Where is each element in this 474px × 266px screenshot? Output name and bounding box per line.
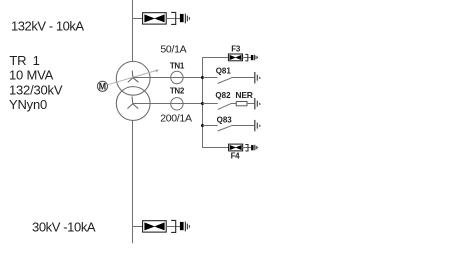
ground LV arrester bar2: [186, 224, 188, 230]
wire: junction to Q81 blade: [203, 77, 218, 79]
black electrode block F3: [251, 55, 254, 60]
ground F4 bar2: [255, 146, 257, 149]
surge arrester LV box: [143, 221, 167, 232]
bracket F4: [245, 145, 248, 152]
ground F4 bar3: [257, 147, 259, 149]
wire: to arrester F3: [203, 57, 229, 59]
svg-text:TN1: TN1: [170, 62, 185, 71]
node junction TN1/Q81: [201, 76, 204, 79]
svg-text:1: 1: [33, 53, 40, 68]
HV winding wye symbol: [128, 71, 139, 83]
ground Q82 bar1: [254, 98, 256, 109]
wire: HV neutral to junction (row Q81): [133, 77, 203, 79]
wire: junction to Q83 blade: [203, 125, 218, 127]
svg-text:TN2: TN2: [170, 86, 185, 95]
CT TN2 circle: [171, 98, 183, 110]
surge arrester HV right triangle: [154, 14, 165, 22]
svg-text:30kV -10kA: 30kV -10kA: [32, 220, 96, 235]
LV winding wye symbol: [127, 96, 138, 108]
arrester F4 right triangle: [235, 145, 241, 150]
switch Q81 blade: [218, 78, 232, 84]
node junction TN2/Q82: [201, 102, 204, 105]
transformer T1 HV winding circle: [116, 61, 150, 95]
tap changer arrow line: [107, 70, 158, 85]
svg-text:Q82: Q82: [215, 91, 231, 100]
surge arrester LV left triangle: [144, 222, 155, 230]
surge arrester F3 box: [228, 54, 242, 61]
ground Q82 bar3: [259, 103, 261, 105]
svg-text:10 MVA: 10 MVA: [9, 68, 54, 83]
ground HV arrester bar1: [184, 14, 186, 24]
black electrode block F4: [251, 145, 254, 150]
wire: LV bus vertical lower segment: [132, 120, 134, 243]
wire: NER to earth: [247, 103, 254, 105]
black electrode block LV arrester: [180, 222, 184, 230]
wire: LV neutral to junction (row Q82): [133, 103, 203, 105]
ground HV arrester bar2: [186, 16, 188, 22]
ground Q83 bar3: [259, 125, 261, 127]
bracket F3: [245, 54, 248, 61]
bracket (counter gap) HV arrester: [171, 12, 176, 24]
ground F4 bar1: [254, 145, 256, 151]
ground Q81 bar3: [259, 77, 261, 79]
motor drive M circle: [97, 81, 107, 91]
svg-text:Q81: Q81: [216, 67, 232, 76]
ground Q83 bar1: [254, 120, 256, 131]
tap changer arrowhead: [155, 70, 159, 73]
transformer T1 LV winding circle: [116, 87, 150, 121]
svg-text:F4: F4: [231, 151, 241, 160]
wire: Q82 blade to NER: [231, 103, 237, 105]
wire: Q81 to earth: [232, 77, 255, 79]
wire: F4 to earth: [243, 147, 251, 149]
wire: branch to LV surge arrester: [133, 226, 143, 228]
surge arrester F4 box: [229, 144, 243, 151]
resistor NER box: [236, 102, 247, 106]
surge arrester LV right triangle: [154, 222, 165, 230]
arrester F3 left triangle: [230, 55, 236, 60]
ground F3 bar1: [254, 55, 256, 61]
surge arrester HV left triangle: [144, 14, 155, 22]
ground Q83 bar2: [256, 123, 258, 129]
ground LV arrester bar1: [184, 222, 186, 232]
switch Q83 blade: [218, 126, 232, 131]
wire: neutral branch vertical: [202, 57, 204, 148]
wire: HV bus vertical upper segment: [132, 0, 134, 62]
arrester F3 right triangle: [235, 55, 241, 60]
ground HV arrester bar3: [188, 17, 190, 20]
wire: junction to Q82 blade: [203, 103, 218, 105]
arrester F4 left triangle: [230, 145, 236, 150]
svg-text:50/1A: 50/1A: [160, 44, 186, 56]
svg-text:NER: NER: [235, 90, 252, 100]
black electrode block HV arrester: [180, 14, 184, 22]
svg-text:132kV - 10kA: 132kV - 10kA: [11, 18, 84, 33]
ground Q81 bar2: [256, 75, 258, 81]
svg-text:200/1A: 200/1A: [160, 113, 192, 125]
ground Q82 bar2: [256, 101, 258, 107]
wire: LV arrester to earth: [166, 226, 180, 228]
switch Q82 blade: [218, 104, 231, 110]
wire: F3 to earth: [243, 57, 251, 59]
node junction Q83: [201, 124, 204, 127]
surge arrester HV box: [143, 13, 167, 24]
svg-text:132/30kV: 132/30kV: [9, 82, 63, 97]
ground F3 bar2: [255, 56, 257, 59]
ground Q81 bar1: [254, 72, 256, 83]
svg-text:F3: F3: [231, 45, 241, 54]
svg-text:TR: TR: [9, 53, 26, 68]
svg-text:Q83: Q83: [217, 115, 233, 124]
ground F3 bar3: [257, 57, 259, 59]
wire: branch to HV surge arrester F1: [133, 18, 143, 20]
CT TN1 circle: [171, 71, 183, 83]
svg-text:YNyn0: YNyn0: [9, 97, 47, 112]
wire: to arrester F4: [203, 147, 229, 149]
wire: Q83 to earth: [231, 125, 254, 127]
svg-text:M: M: [99, 82, 106, 92]
ground LV arrester bar3: [188, 225, 190, 228]
wire: HV arrester to earth: [166, 18, 180, 20]
bracket LV arrester: [171, 220, 176, 232]
